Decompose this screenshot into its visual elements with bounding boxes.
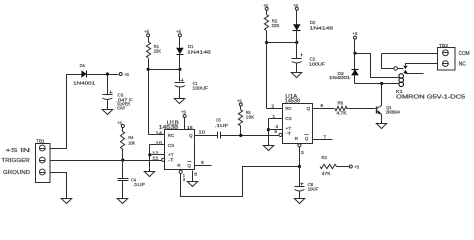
svg-text:10K: 10K (128, 141, 136, 147)
svg-text:+S: +S (237, 98, 242, 104)
svg-text:2: 2 (271, 103, 274, 109)
svg-text:14538: 14538 (285, 99, 301, 105)
svg-text:.1UF: .1UF (133, 182, 146, 188)
svg-text:+S: +S (263, 3, 268, 9)
svg-text:6: 6 (320, 103, 323, 109)
svg-text:CAP: CAP (117, 105, 125, 111)
svg-text:COM: COM (459, 51, 470, 57)
svg-text:+S: +S (293, 3, 298, 9)
svg-text:R6: R6 (338, 101, 344, 107)
svg-text:+S: +S (144, 29, 149, 35)
svg-text:100UF: 100UF (192, 85, 208, 91)
svg-text:-T: -T (168, 158, 174, 163)
svg-text:D1: D1 (188, 44, 194, 50)
svg-text:1N4148: 1N4148 (187, 49, 211, 55)
svg-text:4: 4 (275, 124, 278, 130)
svg-text:1N4001: 1N4001 (73, 81, 96, 87)
svg-text:OMRON G5V-1-DC5: OMRON G5V-1-DC5 (396, 95, 465, 101)
svg-text:R: R (177, 163, 181, 169)
svg-text:+S: +S (124, 72, 129, 78)
svg-text:D2: D2 (310, 20, 316, 26)
svg-text:NC: NC (459, 62, 466, 68)
svg-text:TB1: TB1 (36, 139, 45, 145)
svg-text:Q: Q (307, 106, 311, 112)
svg-text:CX: CX (285, 116, 292, 122)
svg-text:10K: 10K (246, 114, 255, 120)
svg-text:11: 11 (152, 155, 159, 161)
svg-text:R3: R3 (322, 155, 328, 161)
svg-text:+S: +S (176, 29, 181, 35)
svg-text:D4: D4 (80, 63, 86, 69)
svg-text:10: 10 (199, 130, 206, 136)
svg-text:RC: RC (285, 106, 292, 112)
svg-text:16: 16 (187, 125, 193, 131)
svg-text:+S: +S (181, 110, 186, 116)
svg-text:+S: +S (354, 165, 359, 171)
svg-text:2N3904: 2N3904 (386, 109, 400, 115)
svg-text:1N4148: 1N4148 (310, 25, 334, 31)
svg-text:22K: 22K (154, 48, 162, 54)
svg-text:RC: RC (168, 133, 175, 139)
svg-text:7: 7 (323, 134, 326, 140)
svg-text:R: R (295, 136, 299, 142)
svg-text:100UF: 100UF (309, 62, 325, 68)
svg-text:9: 9 (201, 160, 204, 166)
svg-text:1: 1 (272, 114, 275, 120)
svg-text:+S: +S (117, 120, 122, 126)
svg-text:14: 14 (155, 131, 162, 137)
svg-text:3: 3 (301, 150, 304, 156)
svg-text:10UF: 10UF (308, 187, 318, 193)
svg-text:14538: 14538 (159, 125, 179, 131)
svg-text:C5: C5 (216, 117, 221, 123)
svg-text:+S IN: +S IN (5, 148, 30, 154)
svg-text:Q: Q (187, 163, 191, 169)
svg-text:-T: -T (285, 131, 291, 136)
svg-text:R4: R4 (128, 135, 134, 141)
svg-text:TB2: TB2 (439, 43, 448, 49)
svg-text:15: 15 (155, 140, 162, 146)
svg-text:4.7K: 4.7K (337, 110, 348, 116)
svg-text:.1UF: .1UF (215, 123, 229, 129)
svg-text:47K: 47K (322, 171, 332, 177)
svg-text:Q: Q (189, 133, 193, 139)
svg-text:TRIGGER: TRIGGER (1, 158, 29, 164)
svg-text:5: 5 (274, 129, 277, 135)
svg-text:Q: Q (305, 136, 309, 142)
svg-text:8: 8 (194, 172, 197, 178)
svg-text:C2: C2 (310, 56, 316, 62)
svg-text:1N4001: 1N4001 (329, 75, 351, 81)
svg-text:22K: 22K (272, 23, 281, 29)
svg-text:+S: +S (353, 31, 358, 37)
svg-text:GROUND: GROUND (3, 170, 30, 176)
svg-text:CX: CX (168, 143, 175, 149)
